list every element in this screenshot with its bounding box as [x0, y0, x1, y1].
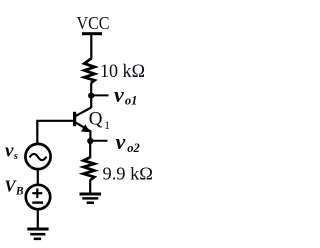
resistor R2 9.9k zigzag: [84, 157, 95, 180]
resistor R1 10k zigzag: [84, 59, 94, 84]
wire R1 to node vo1: [90, 83, 92, 96]
wire VB to ground: [37, 209, 39, 229]
svg-text:o2: o2: [127, 141, 140, 155]
svg-text:v: v: [114, 82, 124, 107]
transistor Q1 collector lead: [75, 108, 91, 117]
svg-text:9.9 kΩ: 9.9 kΩ: [103, 164, 154, 184]
wire R2 to ground: [89, 180, 91, 194]
wire stub to vo1 label: [92, 94, 109, 96]
svg-text:1: 1: [104, 120, 110, 132]
transistor Q1 base bar: [73, 112, 76, 126]
DC source VB circle: [26, 185, 50, 209]
svg-text:s: s: [13, 151, 18, 162]
sine wave inside vs: [30, 154, 47, 160]
node vo2 junction dot: [87, 138, 93, 144]
minus bar inside VB: [32, 201, 43, 203]
svg-text:v: v: [5, 141, 14, 162]
ground symbol left: [27, 228, 48, 231]
wire emitter to node vo2: [89, 131, 91, 142]
transistor Q1 emitter lead: [75, 122, 91, 131]
AC source vs circle: [25, 144, 50, 169]
wire node vo2 to R2: [89, 141, 91, 158]
svg-text:B: B: [15, 186, 24, 198]
svg-text:v: v: [116, 129, 126, 154]
node vo1 junction dot: [88, 93, 94, 99]
wire node vo1 to collector: [90, 96, 92, 108]
ground symbol right: [80, 193, 102, 196]
wire VCC bar to R1: [90, 34, 92, 59]
svg-text:Q: Q: [89, 108, 103, 129]
svg-text:10 kΩ: 10 kΩ: [100, 61, 145, 82]
wire base to source branch: [37, 121, 74, 143]
wire vs to VB: [37, 170, 39, 186]
svg-text:VCC: VCC: [77, 13, 110, 33]
plus sign inside VB: [32, 192, 42, 194]
wire stub to vo2 label: [91, 140, 108, 142]
transistor Q1 emitter arrowhead: [81, 124, 90, 132]
svg-text:o1: o1: [125, 93, 137, 107]
VCC supply bar: [82, 32, 102, 35]
